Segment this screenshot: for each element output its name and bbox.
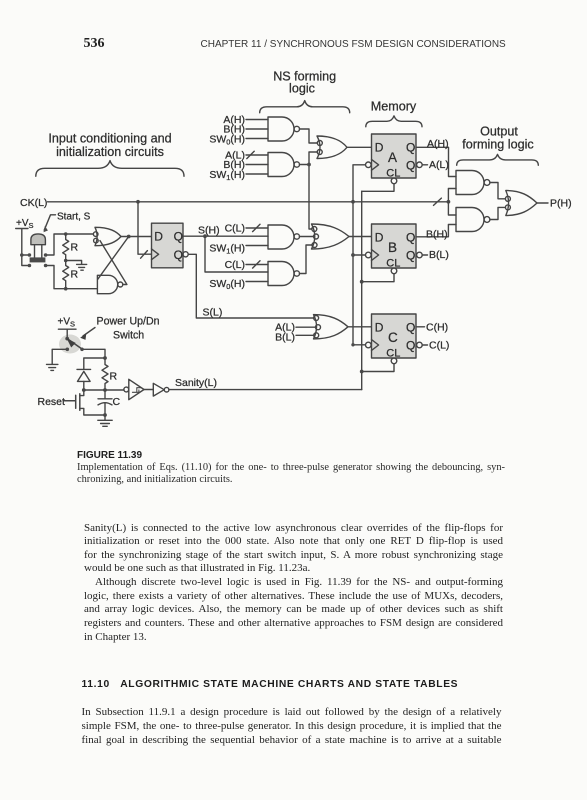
svg-text:P(H): P(H) <box>550 198 572 210</box>
wire latch top output to synchronizer D <box>121 236 152 238</box>
node diode-transistor <box>82 388 86 392</box>
NAND gate G5 (C(L),S,SW0) <box>268 262 294 286</box>
wire B(H) into G1 <box>246 128 268 130</box>
bubble flip-flop A clear CL <box>391 178 397 184</box>
svg-text:R: R <box>71 242 79 254</box>
bubble synchronizer Q-bar <box>183 252 188 257</box>
wire C(L) into G4 <box>246 227 268 229</box>
node sanity rail at flip-flop C <box>360 370 364 374</box>
svg-text:+VS: +VS <box>58 317 76 329</box>
wire C(H) stub <box>416 326 425 328</box>
svg-text:Q: Q <box>406 231 415 245</box>
contact start switch bottom-right <box>44 264 48 268</box>
wire SW0(H) into G5 <box>246 281 268 283</box>
bubble flip-flop B clock <box>366 252 372 258</box>
flip-flop A box <box>372 134 417 178</box>
wire sanity vertical rail <box>361 191 363 389</box>
wire SW1(H) into G2 <box>246 173 268 175</box>
brace over Memory <box>366 116 422 127</box>
svg-text:Q: Q <box>406 249 415 263</box>
bubble flip-flop C Q-bar <box>417 342 423 348</box>
OR gate G7 (NS logic for B) <box>312 224 350 249</box>
node +Vs branch <box>20 253 24 257</box>
bubble G2 output <box>294 162 299 167</box>
bubble G11 input 2 <box>505 205 510 210</box>
wire G4 output to G7 <box>300 236 314 238</box>
ground power switch <box>47 364 58 370</box>
svg-text:Q: Q <box>406 321 415 335</box>
node R1 bottom mid <box>64 259 68 263</box>
wire RC node to diode <box>84 358 105 369</box>
bubble G8 input 3 <box>314 333 319 338</box>
bubble G8 input 1 <box>314 316 319 321</box>
svg-text:C(L): C(L) <box>225 259 245 271</box>
svg-text:D: D <box>375 141 384 155</box>
NAND gate G1 (A,B,SW0 inputs) <box>268 117 294 141</box>
svg-text:Reset: Reset <box>38 396 66 408</box>
wire +Vs terminal to start switch contacts <box>16 229 28 266</box>
power switch shading <box>59 335 81 354</box>
bubble G3 input 2 <box>317 150 322 155</box>
bubble U1 input <box>124 387 129 392</box>
pushbutton base bar <box>30 257 46 262</box>
bubble flip-flop B Q-bar <box>417 252 423 258</box>
wire synchronizer Q to S(H) gates <box>183 235 268 237</box>
wire synchronizer Q-bar to S(L) <box>188 254 313 318</box>
wire G3 output to flip-flop A D input <box>347 146 372 148</box>
capacitor C1 <box>98 390 112 415</box>
bubble G3 input 1 <box>317 141 322 146</box>
bubble flip-flop A Q-bar <box>417 162 423 168</box>
+Vs terminal power switch <box>58 329 76 338</box>
svg-text:CK(L): CK(L) <box>20 197 47 209</box>
bubble G9 output <box>484 180 490 186</box>
svg-text:B: B <box>388 240 397 255</box>
bubble G8 input 2 <box>316 325 321 330</box>
wire B(H) from flip-flop B Q to output logic <box>416 225 456 237</box>
bubble flip-flop C clock <box>366 342 372 348</box>
node RC top <box>103 356 107 360</box>
wire latch cross-coupling upper-to-lower <box>98 237 129 280</box>
node sanity rail at flip-flop B <box>360 280 364 284</box>
svg-text:A: A <box>388 150 397 165</box>
node power switch common <box>65 337 69 341</box>
wire G7 output to flip-flop B D input <box>349 236 372 238</box>
svg-text:Input conditioning and: Input conditioning and <box>48 131 171 145</box>
OR gate G3 (NS logic for A) <box>317 136 347 159</box>
node bottom rail <box>103 413 107 417</box>
wire transistor source <box>80 408 105 415</box>
wire B(H) into G2 <box>246 164 268 166</box>
wire B(L) stub <box>422 254 427 256</box>
bubble G7 input 2 <box>314 234 319 239</box>
wire start switch top contact to latch top rail <box>47 234 93 255</box>
svg-text:Switch: Switch <box>113 330 144 342</box>
slash on CK line at output forming logic <box>434 198 442 205</box>
wire transistor drain <box>80 390 84 396</box>
wire A(H) into G1 <box>246 119 268 121</box>
node CK column at flip-flop C clock <box>351 343 354 346</box>
svg-text:Power Up/Dn: Power Up/Dn <box>97 315 160 327</box>
node G2 output branch <box>307 163 311 167</box>
node CK memory column junction <box>351 200 355 204</box>
pointer line from Power Up/Dn label <box>83 328 95 337</box>
svg-text:forming logic: forming logic <box>462 138 533 152</box>
svg-text:SW1(H): SW1(H) <box>209 243 245 256</box>
svg-text:S(L): S(L) <box>203 307 223 319</box>
node CK at output gates <box>447 200 451 204</box>
wire power switch left contact to ground <box>52 349 65 364</box>
bubble latch top gate input 2 <box>94 238 99 243</box>
svg-text:SW0(H): SW0(H) <box>209 278 245 291</box>
contact start switch top-left <box>28 253 32 257</box>
wire ground stub bottom <box>104 415 106 420</box>
latch NAND top (OR form with input bubbles) <box>95 227 121 245</box>
synchronizer clock triangle <box>152 249 159 260</box>
transistor Q1 reset <box>65 394 80 410</box>
wire CK(L) horizontal line <box>48 201 449 203</box>
resistor R3 <box>102 358 108 390</box>
wire G1 output to G3 <box>300 129 318 143</box>
node CK to synchronizer clock junction <box>136 200 140 204</box>
wire SW0(H) into G1 <box>246 138 268 140</box>
svg-text:B(L): B(L) <box>275 332 295 344</box>
NAND gate G2 (A(L),B,SW1 inputs) <box>268 153 294 177</box>
arrowhead of Power Up/Dn pointer <box>80 333 86 340</box>
svg-text:S(H): S(H) <box>198 225 220 237</box>
NAND gate G4 (C(L),S,SW1) <box>268 225 294 249</box>
power switch blade arrowhead <box>67 338 76 347</box>
pushbutton plunger <box>35 245 42 258</box>
wire CK vertical to flip-flop clocks <box>353 165 365 345</box>
svg-text:C(L): C(L) <box>429 340 449 352</box>
schematic SVG inserted here <box>0 0 587 436</box>
node capacitor top <box>103 388 107 392</box>
wire U1 to U2 <box>144 389 153 391</box>
contact start switch bottom-left <box>28 264 32 268</box>
bubble G7 input 3 <box>312 243 317 248</box>
synchronizer flip-flop box <box>152 223 184 268</box>
wire power switch right contact to RC node <box>84 349 105 358</box>
wire reset node horizontal <box>84 389 124 391</box>
svg-text:A(L): A(L) <box>429 159 449 171</box>
wire SW1(H) into G4 <box>246 245 268 247</box>
pushbutton Start,S dome <box>31 234 46 245</box>
wire A(H) from flip-flop A Q to output logic <box>416 147 456 176</box>
flip-flop C box <box>372 314 417 358</box>
inverter U2 <box>153 383 164 396</box>
slash on C(L) wire G5 <box>253 261 260 268</box>
svg-text:D: D <box>375 321 384 335</box>
node R1 top <box>64 232 68 236</box>
bubble G10 output <box>484 217 490 223</box>
wire C(L) into G5 <box>246 264 268 266</box>
NAND gate G9 output forming top <box>456 171 484 195</box>
svg-text:R: R <box>71 269 79 281</box>
wire G5 output to G7 <box>300 245 312 274</box>
svg-text:A(H): A(H) <box>427 138 449 150</box>
ground latch mid <box>77 264 87 270</box>
svg-text:CL: CL <box>386 257 400 269</box>
wire P(H) output <box>537 202 548 204</box>
pointer line from Start,S label <box>44 215 55 230</box>
bubble G1 output <box>294 126 299 131</box>
svg-text:C: C <box>113 396 121 408</box>
svg-text:Sanity(L): Sanity(L) <box>175 377 217 389</box>
NAND gate G10 output forming bottom <box>456 208 484 232</box>
inverter U1 schmitt <box>129 379 144 399</box>
slash on C(L) wire G4 <box>253 224 260 231</box>
contact power switch right <box>80 348 84 352</box>
svg-text:Q: Q <box>174 230 183 244</box>
wire B(L) into G8 <box>296 334 314 336</box>
wire G9 output to G11 <box>490 183 506 199</box>
wire CK branch to G9 and G10 <box>448 189 456 216</box>
wire G10 output to G11 <box>490 207 506 219</box>
OR gate G8 (S(L),A(L),B(L) for C) <box>314 315 349 339</box>
svg-text:Q: Q <box>406 141 415 155</box>
svg-text:Q: Q <box>174 248 183 262</box>
wire A(L) into G2 <box>246 154 268 156</box>
wire start switch bottom contact to latch bottom rail <box>47 266 97 289</box>
contact start switch top-right <box>44 253 48 257</box>
bubble G7 input 1 <box>312 227 317 232</box>
bubble flip-flop C clear CL <box>391 358 397 364</box>
OR gate G11 output P <box>506 191 537 216</box>
bubble G5 output <box>294 271 299 276</box>
svg-text:B(H): B(H) <box>426 229 448 241</box>
svg-text:initialization circuits: initialization circuits <box>56 145 164 159</box>
wire flip-flop B CL to sanity rail <box>362 274 394 282</box>
bubble latch top gate input 1 <box>93 232 98 237</box>
wire flip-flop A CL to sanity rail <box>362 184 394 192</box>
wire ground tap from latch mid node <box>66 261 82 265</box>
flip-flop B box <box>372 224 417 268</box>
node CK column at flip-flop B clock <box>351 253 355 257</box>
bubble G11 input 1 <box>505 196 510 201</box>
wire latch cross-coupling lower-to-upper <box>100 241 127 285</box>
arrowhead of Start,S pointer <box>44 226 48 232</box>
svg-text:Start, S: Start, S <box>57 211 91 222</box>
slash on A(L) wire <box>247 151 254 158</box>
brace over NS forming logic <box>260 101 350 113</box>
svg-text:C(H): C(H) <box>426 321 448 333</box>
svg-text:D: D <box>375 231 384 245</box>
svg-text:R: R <box>110 371 118 383</box>
svg-text:+VS: +VS <box>16 218 34 230</box>
resistor R1 <box>63 234 69 261</box>
node latch output junction <box>127 235 131 239</box>
brace over Input conditioning <box>36 161 184 177</box>
ground bottom rail <box>98 420 112 426</box>
bubble flip-flop A clock <box>366 162 372 168</box>
flip-flop B clock triangle <box>372 250 379 261</box>
resistor R2 <box>63 261 69 289</box>
svg-text:Memory: Memory <box>371 99 417 113</box>
slash on synchronizer clock wire <box>141 251 148 259</box>
bubble flip-flop B clear CL <box>391 268 397 274</box>
wire G2 output to G3 and to G7 <box>300 152 318 229</box>
svg-text:D: D <box>154 230 163 244</box>
flip-flop A clock triangle <box>372 159 379 170</box>
diode D1 <box>77 369 91 381</box>
wire flip-flop C CL to sanity rail <box>362 364 394 372</box>
svg-text:Q: Q <box>406 158 415 172</box>
wire G8 output to flip-flop C D input <box>348 326 372 328</box>
wire A(L) stub <box>422 164 427 166</box>
power switch blade <box>67 339 82 349</box>
svg-text:C(L): C(L) <box>225 223 245 235</box>
brace over Output forming logic <box>457 154 539 165</box>
wire Sanity(L) <box>169 389 362 391</box>
node R2 bottom <box>64 287 68 291</box>
wire C(L) stub <box>422 344 427 346</box>
wire diode anode down <box>83 381 85 390</box>
svg-text:CL: CL <box>386 167 400 179</box>
svg-text:Q: Q <box>406 339 415 353</box>
wire S(H) branch to lower gate <box>205 236 268 272</box>
flip-flop C clock triangle <box>372 340 379 351</box>
bubble U2 output <box>164 387 169 392</box>
svg-text:B(L): B(L) <box>429 249 449 261</box>
hysteresis symbol U1 <box>132 388 140 393</box>
wire synchronizer clock drop <box>138 202 152 254</box>
bubble G4 output <box>294 234 299 239</box>
wire A(L) into G8 <box>296 326 316 328</box>
bubble latch bottom gate output <box>118 282 123 287</box>
node S(H) branch <box>203 234 207 238</box>
svg-text:CL: CL <box>386 347 400 359</box>
contact power switch left <box>66 348 70 352</box>
svg-text:C: C <box>388 330 398 345</box>
latch NAND bottom <box>97 275 117 293</box>
svg-text:logic: logic <box>289 82 315 96</box>
